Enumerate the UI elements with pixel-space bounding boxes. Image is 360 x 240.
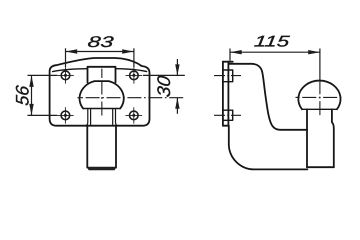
shank top rectangle (front view) <box>88 67 116 83</box>
56 extension line bottom <box>28 114 58 116</box>
115 arrow left <box>230 50 242 54</box>
nut tab bottom <box>223 110 233 120</box>
side plate top edge <box>223 61 233 63</box>
56 dimension line <box>31 75 33 115</box>
flange plate outline (front view) <box>50 58 150 126</box>
svg-text:83: 83 <box>87 34 115 51</box>
dimension 56 <box>28 75 58 115</box>
svg-text:30: 30 <box>153 75 174 99</box>
ball block left edge <box>306 109 308 167</box>
svg-text:56: 56 <box>12 83 33 106</box>
ball bottom chord (side view) <box>302 108 336 110</box>
neck outer line right with curl <box>116 109 118 126</box>
83 arrow right <box>122 49 134 53</box>
swan neck upper edge <box>228 64 307 130</box>
hole bottom-right <box>126 107 143 123</box>
neck outer line left with curl <box>86 109 88 126</box>
shank chamfer foot (filled band) <box>87 167 116 170</box>
dimension 83 <box>66 48 134 67</box>
dimension 115 <box>230 49 320 81</box>
bolt holes front view <box>57 67 142 123</box>
56 arrow bottom <box>29 104 33 116</box>
hole top-left <box>57 67 74 83</box>
hole top-right <box>126 67 143 83</box>
dimension 30 <box>143 59 185 114</box>
ball centre lines side view <box>296 80 344 116</box>
shank right edge below plate <box>115 126 117 168</box>
115 arrow right <box>308 50 320 54</box>
tow ball (front view) <box>80 81 124 108</box>
ball vertical centre line <box>101 69 103 78</box>
ball block right edge with flare <box>332 109 334 167</box>
30 arrow top (pointing down) <box>175 64 179 75</box>
swan neck lower-left edge <box>229 126 308 170</box>
neck inner line right <box>112 109 114 125</box>
30 extension line top <box>143 74 185 76</box>
30 arrow bottom (pointing up) <box>175 98 179 109</box>
83 extension line right <box>133 48 135 67</box>
ball bottom chord <box>83 108 120 110</box>
83 arrow left <box>66 49 78 53</box>
56 arrow top <box>29 75 33 87</box>
56 extension line top <box>28 74 58 76</box>
top bolt centre line <box>214 75 241 77</box>
tow ball (side view) <box>298 81 340 110</box>
ball horizontal centre line + 30 extension <box>77 97 83 99</box>
30 dimension line above <box>176 59 178 75</box>
115 dimension line <box>230 51 320 53</box>
hole bottom-left <box>57 107 74 123</box>
ball block bottom edge <box>307 166 334 168</box>
ball vertical centre line <box>319 80 321 116</box>
side plate left edge <box>222 62 224 126</box>
side plate bottom edge <box>223 125 229 127</box>
neck inner line left <box>90 109 92 125</box>
side plate right edge <box>227 62 229 126</box>
115 extension line right (above ball) <box>319 49 321 81</box>
shank left edge below plate <box>86 126 88 168</box>
115 extension line left <box>229 49 231 61</box>
30 dimension line below <box>176 98 178 114</box>
plate bend line right segment <box>116 69 147 72</box>
svg-text:115: 115 <box>253 34 290 51</box>
bottom bolt centre line <box>214 114 241 116</box>
83 extension line left <box>65 48 67 67</box>
83 dimension line <box>66 51 134 53</box>
center lines front view (dash-dot) <box>77 69 184 117</box>
side plate bolt hole lines <box>214 76 241 116</box>
ball horizontal centre line <box>296 96 300 98</box>
nut tab top <box>223 70 233 82</box>
plate bend line left segment <box>53 69 88 72</box>
